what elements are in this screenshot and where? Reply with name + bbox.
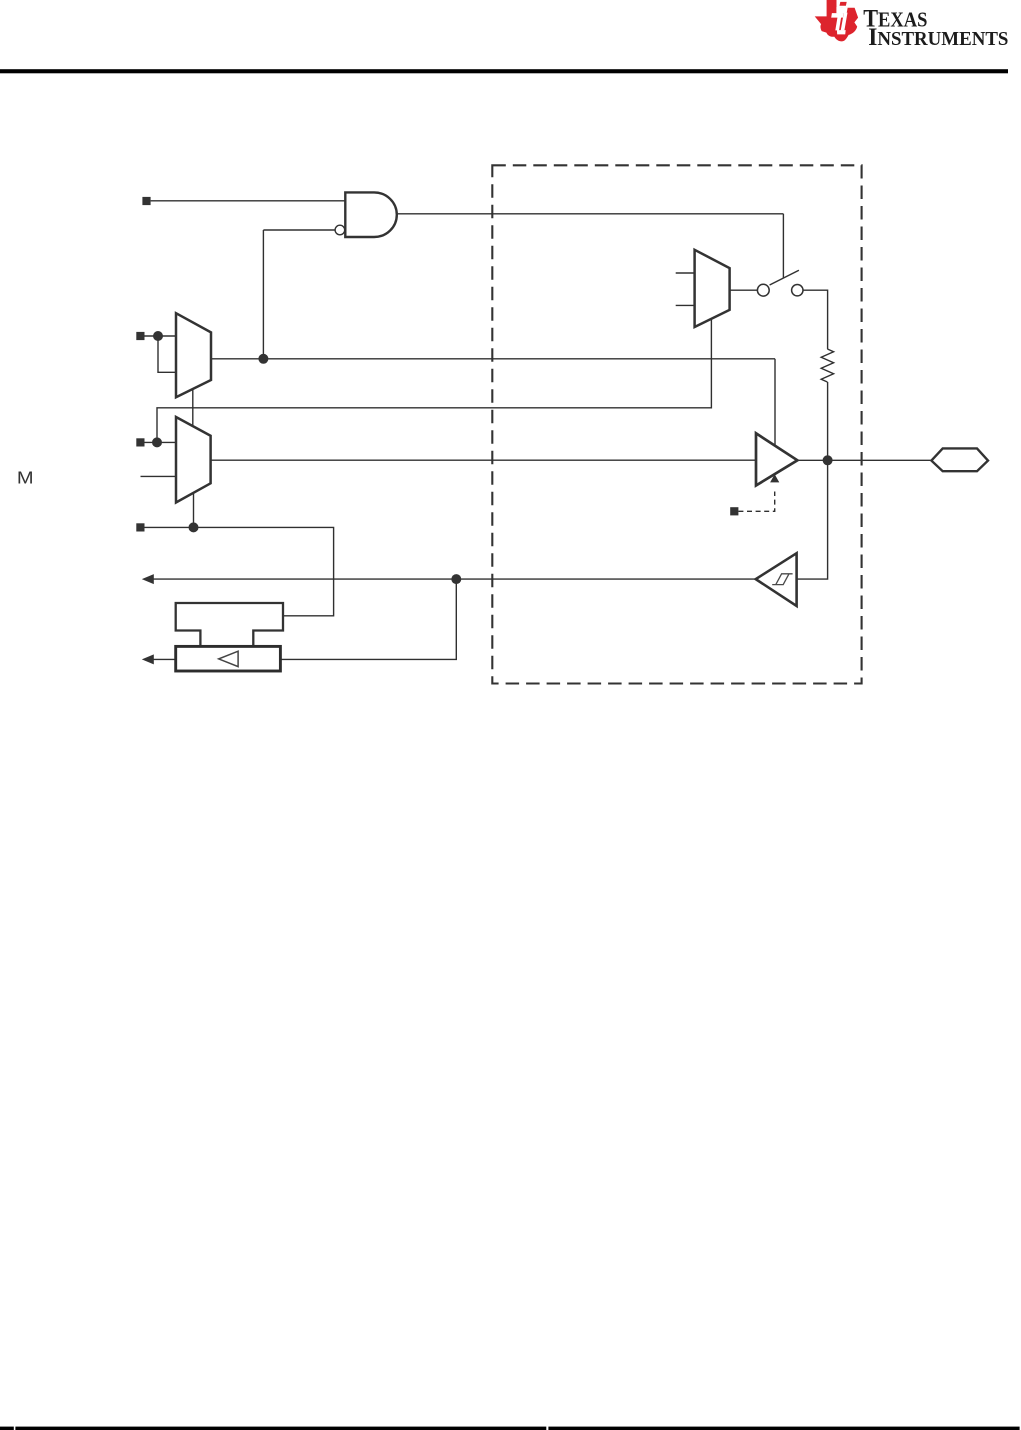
svg-text:INSTRUMENTS: INSTRUMENTS (868, 24, 1008, 51)
svg-text:M: M (17, 468, 34, 487)
